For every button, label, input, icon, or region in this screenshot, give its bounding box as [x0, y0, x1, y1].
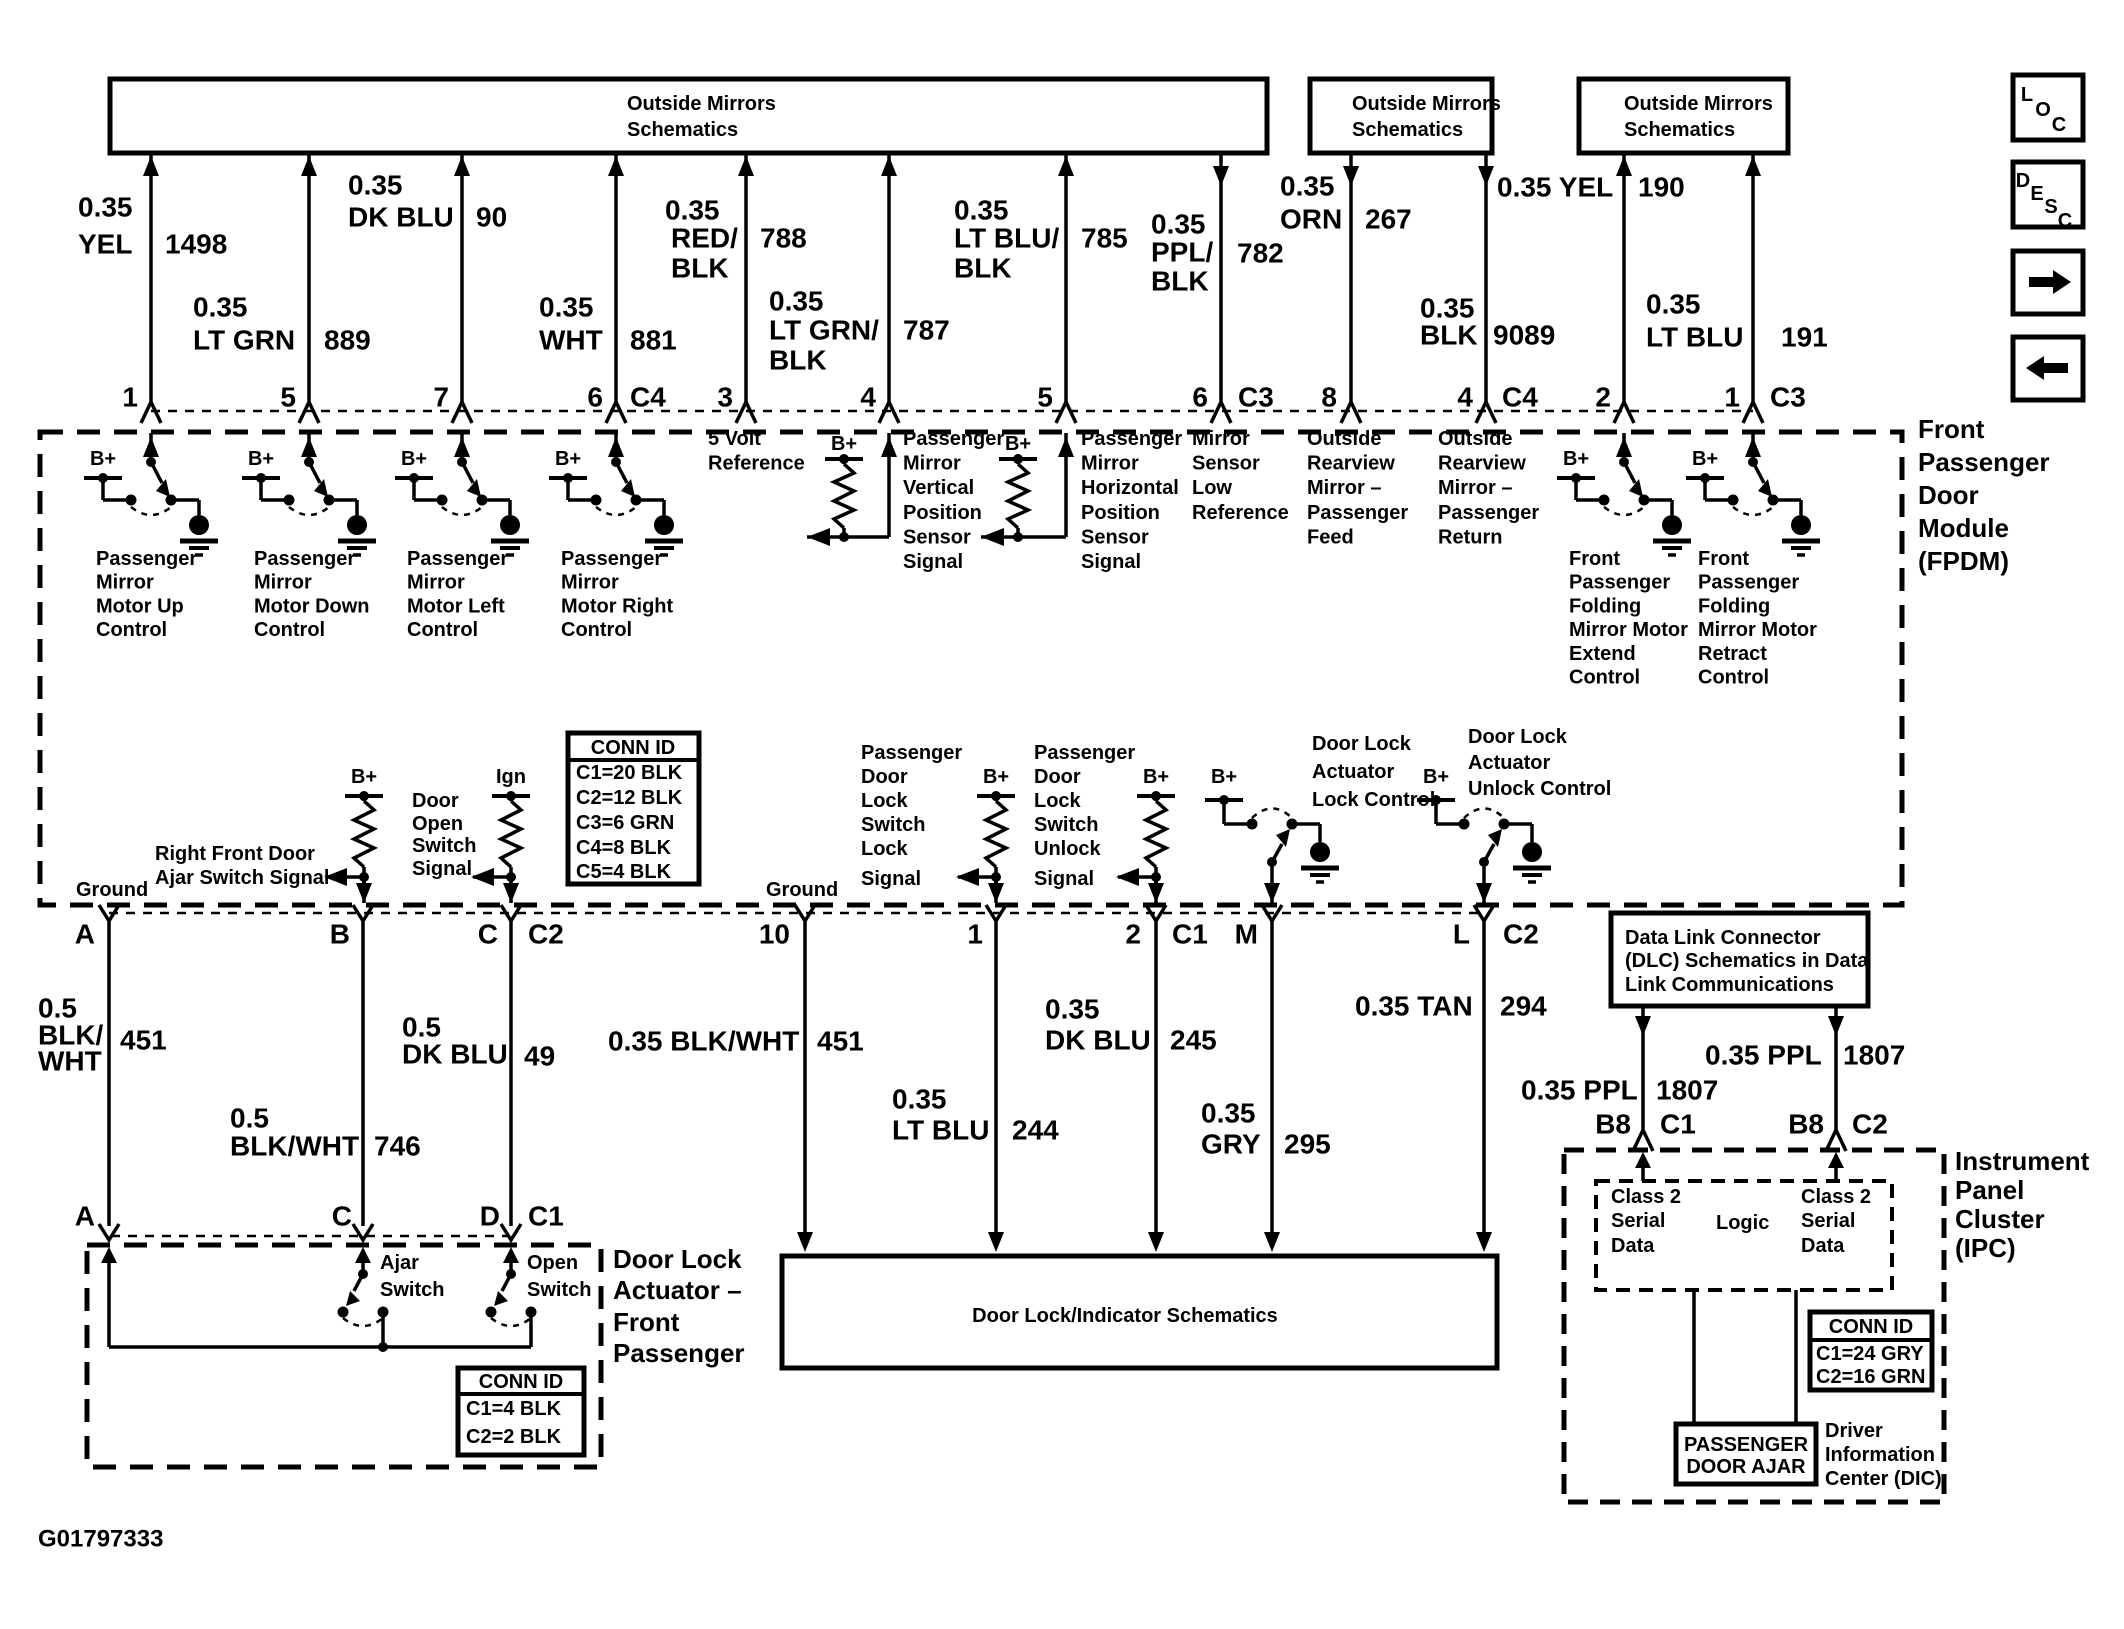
svg-text:D: D — [2016, 170, 2030, 192]
svg-text:E: E — [2030, 183, 2043, 205]
svg-text:Folding: Folding — [1569, 595, 1641, 617]
label: Door Lock Actuator - Front Passenger — [613, 1244, 745, 1368]
node label: 5 Volt Reference — [708, 428, 805, 475]
svg-text:RED/: RED/ — [671, 223, 738, 254]
svg-text:YEL: YEL — [78, 229, 132, 260]
svg-text:Mirror Motor: Mirror Motor — [1698, 619, 1817, 641]
svg-text:0.35: 0.35 — [539, 292, 594, 323]
svg-text:Door Lock: Door Lock — [1312, 733, 1412, 755]
svg-text:2: 2 — [1595, 382, 1611, 413]
svg-text:Control: Control — [407, 619, 478, 641]
svg-text:Reference: Reference — [1192, 502, 1289, 524]
wire 49 DK BLU (pin C to actuator pin D) — [509, 921, 513, 1226]
svg-text:4: 4 — [1457, 382, 1473, 413]
svg-text:0.35: 0.35 — [1646, 289, 1701, 320]
svg-text:Passenger: Passenger — [613, 1338, 745, 1368]
svg-text:Return: Return — [1438, 526, 1502, 548]
label: Passenger Door Lock Switch Unlock Signal — [1034, 742, 1135, 890]
wire 785 to Outside Mirrors Schematics — [1056, 153, 1076, 423]
svg-text:Passenger: Passenger — [1438, 502, 1539, 524]
svg-text:Switch: Switch — [412, 835, 476, 857]
svg-text:5: 5 — [280, 382, 296, 413]
box: Outside Mirrors Schematics (right) — [1579, 79, 1788, 153]
label: Class 2 Serial Data (right) — [1801, 1186, 1871, 1257]
svg-text:(IPC): (IPC) — [1955, 1233, 2016, 1263]
svg-text:C: C — [2058, 210, 2072, 232]
resistor: Passenger Door Lock Switch Unlock Signal (pull-up B+, output to connector) — [1116, 766, 1175, 903]
svg-text:Outside: Outside — [1307, 428, 1381, 450]
svg-text:Position: Position — [903, 502, 982, 524]
svg-text:LT BLU/: LT BLU/ — [954, 223, 1059, 254]
svg-text:C1: C1 — [1172, 919, 1208, 950]
resistor: Passenger Mirror Horizontal Position Sensor pull-up (B+) with signal tap — [981, 433, 1074, 546]
svg-text:Mirror: Mirror — [1081, 453, 1139, 475]
resistor: Passenger Mirror Vertical Position Sensor pull-up (B+) with signal tap — [807, 433, 897, 546]
wire: class 2 serial data entry (C2) — [1828, 1152, 1844, 1181]
svg-text:Door: Door — [412, 790, 459, 812]
svg-text:245: 245 — [1170, 1025, 1217, 1056]
svg-text:Instrument: Instrument — [1955, 1146, 2090, 1176]
svg-text:C5=4 BLK: C5=4 BLK — [576, 861, 672, 883]
label 0.35 GRY (circuit 295) — [1201, 1098, 1261, 1160]
switch: Front Passenger Folding Mirror Motor Extend Control (with B+ feed and ground) — [1557, 433, 1691, 555]
wire 451 BLK/WHT (pin 10 ground to Door Lock/Indicator Schematics) — [797, 921, 813, 1252]
svg-text:787: 787 — [903, 315, 950, 346]
svg-text:785: 785 — [1081, 223, 1128, 254]
svg-text:Passenger: Passenger — [96, 548, 197, 570]
svg-text:C2=12 BLK: C2=12 BLK — [576, 787, 683, 809]
label: Open Switch — [527, 1252, 591, 1301]
svg-text:A: A — [75, 1201, 95, 1232]
node label: Mirror Sensor Low Reference — [1192, 428, 1289, 524]
svg-text:267: 267 — [1365, 204, 1412, 235]
svg-text:Door: Door — [861, 766, 908, 788]
svg-text:881: 881 — [630, 325, 677, 356]
node label: Passenger Mirror Horizontal Position Sensor Signal — [1081, 428, 1182, 573]
svg-text:DK BLU: DK BLU — [402, 1039, 508, 1070]
svg-text:C1=24 GRY: C1=24 GRY — [1816, 1343, 1924, 1365]
svg-text:10: 10 — [759, 919, 790, 950]
svg-text:Switch: Switch — [861, 814, 925, 836]
svg-text:Motor Up: Motor Up — [96, 595, 184, 617]
svg-text:BLK: BLK — [671, 253, 729, 284]
svg-text:Serial: Serial — [1611, 1210, 1665, 1232]
label 0.5 BLK/WHT (circuit 746) — [230, 1103, 359, 1162]
svg-text:3: 3 — [717, 382, 733, 413]
svg-text:Sensor: Sensor — [1081, 526, 1149, 548]
wire 1807 PPL (DLC to IPC pin B8/C2) — [1826, 1006, 1846, 1151]
wire 191 to Outside Mirrors Schematics — [1743, 153, 1763, 423]
wire 9089 to Outside Mirrors Schematics — [1476, 153, 1496, 423]
svg-text:Ajar Switch Signal: Ajar Switch Signal — [155, 867, 329, 889]
label: Right Front Door Ajar Switch Signal — [155, 843, 329, 889]
connector terminal FPDM pin 10 — [795, 905, 815, 921]
svg-text:Front: Front — [613, 1307, 680, 1337]
svg-text:Outside Mirrors: Outside Mirrors — [1352, 93, 1501, 115]
switch: Ajar Switch (door lock actuator) — [338, 1247, 389, 1352]
switch: Front Passenger Folding Mirror Motor Retract Control (with B+ feed and ground) — [1686, 433, 1820, 555]
svg-text:Signal: Signal — [861, 868, 921, 890]
svg-text:1: 1 — [122, 382, 138, 413]
svg-text:Low: Low — [1192, 477, 1232, 499]
svg-text:Motor Right: Motor Right — [561, 595, 674, 617]
svg-text:Schematics: Schematics — [1352, 119, 1463, 141]
svg-text:Mirror: Mirror — [407, 572, 465, 594]
svg-text:BLK: BLK — [954, 253, 1012, 284]
wire: ground return inside actuator (pin A leg) — [101, 1247, 117, 1347]
box: Data Link Connector (DLC) Schematics — [1611, 913, 1869, 1006]
svg-text:6: 6 — [1192, 382, 1208, 413]
svg-text:C4: C4 — [1502, 382, 1538, 413]
icon LOC button — [2013, 75, 2083, 140]
svg-text:Lock: Lock — [861, 790, 909, 812]
svg-text:Actuator –: Actuator – — [613, 1275, 742, 1305]
svg-text:Switch: Switch — [527, 1279, 591, 1301]
label 0.5 DK BLU (circuit 49) — [402, 1012, 508, 1070]
svg-text:Data: Data — [1611, 1235, 1655, 1257]
wire 1807 PPL (DLC to IPC pin B8/C1) — [1633, 1006, 1653, 1151]
box: Outside Mirrors Schematics (middle) — [1310, 79, 1501, 153]
svg-text:Schematics: Schematics — [1624, 119, 1735, 141]
svg-text:Open: Open — [412, 813, 463, 835]
svg-text:LT BLU: LT BLU — [1646, 322, 1743, 353]
svg-text:Center (DIC): Center (DIC) — [1825, 1468, 1942, 1490]
wire 90 to Outside Mirrors Schematics — [452, 153, 472, 423]
switch: Passenger Mirror Motor Right Control (with B+ feed and ground) — [549, 433, 683, 555]
svg-text:8: 8 — [1321, 382, 1337, 413]
svg-text:0.35: 0.35 — [1151, 209, 1206, 240]
svg-text:Passenger: Passenger — [1918, 447, 2050, 477]
svg-text:451: 451 — [120, 1025, 167, 1056]
label: Front Passenger Folding Mirror Motor Extend Control — [1569, 548, 1688, 689]
svg-text:O: O — [2035, 99, 2051, 121]
svg-text:Reference: Reference — [708, 453, 805, 475]
svg-text:CONN ID: CONN ID — [1829, 1316, 1913, 1338]
svg-text:889: 889 — [324, 325, 371, 356]
connector terminal actuator pin C — [353, 1224, 373, 1240]
svg-text:788: 788 — [760, 223, 807, 254]
connector strip line (FPDM bottom connectors) — [109, 912, 1484, 915]
label 0.35 DK BLU (circuit 245) — [1045, 994, 1151, 1056]
svg-text:Data Link Connector: Data Link Connector — [1625, 927, 1821, 949]
svg-text:DK BLU: DK BLU — [1045, 1025, 1151, 1056]
svg-text:Mirror: Mirror — [903, 453, 961, 475]
svg-text:CONN ID: CONN ID — [591, 737, 675, 759]
svg-text:Signal: Signal — [903, 551, 963, 573]
svg-text:B8: B8 — [1595, 1109, 1631, 1140]
wire 889 to Outside Mirrors Schematics — [299, 153, 319, 423]
svg-text:GRY: GRY — [1201, 1129, 1261, 1160]
svg-text:CONN ID: CONN ID — [479, 1371, 563, 1393]
svg-text:0.35: 0.35 — [665, 195, 720, 226]
svg-text:(FPDM): (FPDM) — [1918, 546, 2009, 576]
svg-text:1: 1 — [967, 919, 983, 950]
svg-text:0.35: 0.35 — [193, 292, 248, 323]
svg-text:Control: Control — [254, 619, 325, 641]
svg-text:Schematics: Schematics — [627, 119, 738, 141]
label 0.35 LT BLU (circuit 244) — [892, 1084, 989, 1146]
svg-text:Feed: Feed — [1307, 526, 1354, 548]
IPC dashed border — [1564, 1150, 1944, 1502]
svg-text:7: 7 — [433, 382, 449, 413]
svg-text:M: M — [1235, 919, 1258, 950]
svg-text:Open: Open — [527, 1252, 578, 1274]
connector terminal FPDM pin L — [1474, 905, 1494, 921]
svg-text:PPL/: PPL/ — [1151, 237, 1213, 268]
svg-text:LT GRN: LT GRN — [193, 325, 295, 356]
svg-text:DK BLU: DK BLU — [348, 202, 454, 233]
IPC logic dashed box — [1596, 1181, 1892, 1290]
svg-text:(DLC) Schematics in Data: (DLC) Schematics in Data — [1625, 950, 1869, 972]
svg-text:1807: 1807 — [1843, 1040, 1905, 1071]
connector terminal FPDM pin M — [1262, 905, 1282, 921]
connector terminal FPDM pin C — [501, 905, 521, 921]
svg-text:1: 1 — [1724, 382, 1740, 413]
svg-text:Control: Control — [1698, 667, 1769, 689]
svg-text:Cluster: Cluster — [1955, 1204, 2045, 1234]
svg-text:B+: B+ — [1211, 766, 1237, 788]
switch: Door Lock Actuator Lock Control (B+ feed, grounded contact) — [1205, 766, 1339, 903]
svg-text:191: 191 — [1781, 322, 1828, 353]
label: Door Open Switch Signal — [412, 790, 476, 880]
svg-text:Passenger: Passenger — [561, 548, 662, 570]
label: Class 2 Serial Data (left) — [1611, 1186, 1681, 1257]
label: Driver Information Center (DIC) — [1825, 1420, 1942, 1490]
wire: logic to DIC (right) — [1794, 1290, 1798, 1424]
svg-text:Unlock Control: Unlock Control — [1468, 778, 1611, 800]
icon forward-arrow button — [2013, 251, 2083, 314]
svg-text:Driver: Driver — [1825, 1420, 1883, 1442]
switch: Door Lock Actuator Unlock Control (B+ feed, grounded contact) — [1417, 766, 1551, 903]
svg-text:D: D — [480, 1201, 500, 1232]
label 0.5 BLK/WHT (circuit 451) — [38, 993, 104, 1077]
svg-text:Vertical: Vertical — [903, 477, 974, 499]
box: Door Lock/Indicator Schematics — [782, 1256, 1497, 1368]
svg-text:Passenger: Passenger — [407, 548, 508, 570]
svg-text:Lock Control: Lock Control — [1312, 789, 1435, 811]
svg-text:4: 4 — [860, 382, 876, 413]
wire 1498 to Outside Mirrors Schematics — [141, 153, 161, 423]
svg-text:B+: B+ — [831, 433, 857, 455]
wire 190 to Outside Mirrors Schematics — [1614, 153, 1634, 423]
svg-text:0.35 TAN: 0.35 TAN — [1355, 991, 1473, 1022]
svg-text:294: 294 — [1500, 991, 1547, 1022]
svg-text:B+: B+ — [1692, 448, 1718, 470]
svg-text:Passenger: Passenger — [254, 548, 355, 570]
svg-text:C: C — [478, 919, 498, 950]
connector strip line (actuator connectors) — [111, 1235, 509, 1238]
svg-text:Ground: Ground — [766, 879, 838, 901]
svg-text:Information: Information — [1825, 1444, 1935, 1466]
svg-text:C2: C2 — [528, 919, 564, 950]
svg-text:Passenger: Passenger — [861, 742, 962, 764]
wire 782 to Outside Mirrors Schematics — [1211, 153, 1231, 423]
svg-text:WHT: WHT — [539, 325, 603, 356]
svg-text:Sensor: Sensor — [1192, 453, 1260, 475]
label: Passenger Mirror Motor Up Control — [96, 548, 197, 641]
svg-text:Control: Control — [561, 619, 632, 641]
connector strip line (FPDM top connectors) — [151, 410, 1753, 413]
svg-text:Passenger: Passenger — [1569, 572, 1670, 594]
svg-text:Front: Front — [1698, 548, 1749, 570]
svg-text:Logic: Logic — [1716, 1212, 1769, 1234]
label: Passenger Mirror Motor Left Control — [407, 548, 508, 641]
svg-text:C: C — [332, 1201, 352, 1232]
svg-text:0.35: 0.35 — [1201, 1098, 1256, 1129]
svg-text:LT BLU: LT BLU — [892, 1115, 989, 1146]
connector terminal FPDM pin 1 — [986, 905, 1006, 921]
svg-text:1498: 1498 — [165, 229, 227, 260]
svg-text:5 Volt: 5 Volt — [708, 428, 761, 450]
svg-text:PASSENGER: PASSENGER — [1684, 1434, 1809, 1456]
box: PASSENGER DOOR AJAR indicator — [1676, 1424, 1816, 1484]
CONN ID table (door lock actuator) — [458, 1368, 584, 1455]
svg-text:C4=8 BLK: C4=8 BLK — [576, 837, 672, 859]
wire 787 to Outside Mirrors Schematics — [879, 153, 899, 423]
svg-text:Outside Mirrors: Outside Mirrors — [627, 93, 776, 115]
svg-text:782: 782 — [1237, 238, 1284, 269]
svg-text:49: 49 — [524, 1041, 555, 1072]
svg-text:6: 6 — [587, 382, 603, 413]
svg-text:Motor Left: Motor Left — [407, 595, 505, 617]
svg-text:B+: B+ — [1423, 766, 1449, 788]
svg-text:Mirror –: Mirror – — [1307, 477, 1381, 499]
svg-text:0.35 BLK/WHT: 0.35 BLK/WHT — [608, 1026, 799, 1057]
connector terminal FPDM pin B — [353, 905, 373, 921]
FPDM module dashed border — [40, 432, 1902, 905]
wire 788 to Outside Mirrors Schematics — [736, 153, 756, 423]
connector terminal actuator pin A — [99, 1224, 119, 1240]
svg-text:A: A — [75, 919, 95, 950]
wire 295 GRY (pin M lock control) — [1264, 921, 1280, 1252]
node label: Passenger Mirror Vertical Position Sensor Signal — [903, 428, 1004, 573]
svg-text:Passenger: Passenger — [903, 428, 1004, 450]
label: Instrument Panel Cluster (IPC) — [1955, 1146, 2090, 1263]
svg-text:L: L — [1453, 919, 1470, 950]
svg-text:Rearview: Rearview — [1438, 453, 1526, 475]
svg-text:0.35 PPL: 0.35 PPL — [1521, 1075, 1638, 1106]
svg-text:Mirror: Mirror — [1192, 428, 1250, 450]
Door Lock Actuator dashed border — [87, 1245, 601, 1467]
svg-text:LT GRN/: LT GRN/ — [769, 315, 879, 346]
svg-text:BLK: BLK — [769, 345, 827, 376]
svg-text:B+: B+ — [401, 448, 427, 470]
switch: Open Switch (door lock actuator) — [486, 1247, 537, 1347]
wire 746 BLK/WHT (pin B to actuator pin C) — [361, 921, 365, 1226]
svg-text:0.35: 0.35 — [769, 286, 824, 317]
switch: Passenger Mirror Motor Left Control (with B+ feed and ground) — [395, 433, 529, 555]
CONN ID table (IPC) — [1810, 1312, 1932, 1390]
svg-text:190: 190 — [1638, 172, 1685, 203]
svg-text:Signal: Signal — [1034, 868, 1094, 890]
svg-text:Passenger: Passenger — [1307, 502, 1408, 524]
svg-text:Outside: Outside — [1438, 428, 1512, 450]
svg-text:Actuator: Actuator — [1468, 752, 1550, 774]
svg-text:Switch: Switch — [1034, 814, 1098, 836]
resistor: Door Open Switch Signal (pull-up Ign, output to connector) — [471, 766, 530, 903]
svg-text:0.5: 0.5 — [230, 1103, 269, 1134]
svg-text:Extend: Extend — [1569, 643, 1636, 665]
svg-text:Lock: Lock — [1034, 790, 1082, 812]
svg-text:Mirror Motor: Mirror Motor — [1569, 619, 1688, 641]
svg-text:Link Communications: Link Communications — [1625, 974, 1834, 996]
svg-text:9089: 9089 — [1493, 320, 1555, 351]
svg-text:2: 2 — [1125, 919, 1141, 950]
svg-text:B+: B+ — [351, 766, 377, 788]
svg-text:Data: Data — [1801, 1235, 1845, 1257]
svg-text:Retract: Retract — [1698, 643, 1767, 665]
connector terminal FPDM pin A — [99, 905, 119, 921]
label: Front Passenger Folding Mirror Motor Retract Control — [1698, 548, 1817, 689]
wire: class 2 serial data entry (C1) — [1635, 1152, 1651, 1181]
svg-text:Right Front Door: Right Front Door — [155, 843, 315, 865]
svg-text:C4: C4 — [630, 382, 666, 413]
svg-text:C: C — [2052, 114, 2066, 136]
svg-text:C2: C2 — [1852, 1109, 1888, 1140]
svg-text:Class 2: Class 2 — [1801, 1186, 1871, 1208]
connector terminal actuator pin D — [501, 1224, 521, 1240]
box: Outside Mirrors Schematics (wide left) — [110, 79, 1267, 153]
svg-text:B8: B8 — [1788, 1109, 1824, 1140]
svg-text:746: 746 — [374, 1131, 421, 1162]
resistor: Right Front Door Ajar Switch Signal (pull-up B+, output to connector) — [324, 766, 383, 903]
svg-text:C2=16 GRN: C2=16 GRN — [1816, 1366, 1926, 1388]
svg-text:Passenger: Passenger — [1034, 742, 1135, 764]
svg-text:0.35: 0.35 — [1045, 994, 1100, 1025]
svg-text:Sensor: Sensor — [903, 526, 971, 548]
resistor: Passenger Door Lock Switch Lock Signal (pull-up B+, output to connector) — [956, 766, 1015, 903]
svg-text:B+: B+ — [248, 448, 274, 470]
svg-text:Ign: Ign — [496, 766, 526, 788]
svg-text:Door Lock: Door Lock — [613, 1244, 742, 1274]
svg-text:Panel: Panel — [1955, 1175, 2024, 1205]
svg-text:Door: Door — [1918, 480, 1979, 510]
label: Door Lock Actuator Unlock Control — [1468, 726, 1611, 800]
svg-text:Front: Front — [1918, 414, 1985, 444]
svg-text:Door Lock/Indicator Schematics: Door Lock/Indicator Schematics — [972, 1305, 1278, 1327]
svg-text:C3: C3 — [1238, 382, 1274, 413]
label: Passenger Mirror Motor Down Control — [254, 548, 370, 641]
node label: Outside Rearview Mirror - Passenger Feed — [1307, 428, 1408, 548]
svg-text:5: 5 — [1037, 382, 1053, 413]
svg-text:0.35 YEL: 0.35 YEL — [1497, 172, 1613, 203]
svg-text:Switch: Switch — [380, 1279, 444, 1301]
svg-text:L: L — [2021, 84, 2033, 106]
svg-text:B+: B+ — [983, 766, 1009, 788]
svg-text:Ajar: Ajar — [380, 1252, 419, 1274]
switch: Passenger Mirror Motor Down Control (with B+ feed and ground) — [242, 433, 376, 555]
svg-text:Door: Door — [1034, 766, 1081, 788]
label: Door Lock Actuator Lock Control — [1312, 733, 1435, 811]
svg-text:295: 295 — [1284, 1129, 1331, 1160]
svg-text:WHT: WHT — [38, 1046, 102, 1077]
svg-text:Mirror: Mirror — [561, 572, 619, 594]
svg-text:Class 2: Class 2 — [1611, 1186, 1681, 1208]
svg-text:0.35: 0.35 — [1280, 171, 1335, 202]
svg-text:Mirror –: Mirror – — [1438, 477, 1512, 499]
svg-text:ORN: ORN — [1280, 204, 1342, 235]
wire 881 to Outside Mirrors Schematics — [606, 153, 626, 423]
svg-text:G01797333: G01797333 — [38, 1526, 163, 1553]
svg-text:C1: C1 — [528, 1201, 564, 1232]
icon DESC button — [2013, 162, 2083, 232]
svg-text:B: B — [330, 919, 350, 950]
svg-text:1807: 1807 — [1656, 1075, 1718, 1106]
svg-text:0.35: 0.35 — [78, 192, 133, 223]
svg-text:Serial: Serial — [1801, 1210, 1855, 1232]
svg-text:Unlock: Unlock — [1034, 838, 1102, 860]
svg-text:Lock: Lock — [861, 838, 909, 860]
